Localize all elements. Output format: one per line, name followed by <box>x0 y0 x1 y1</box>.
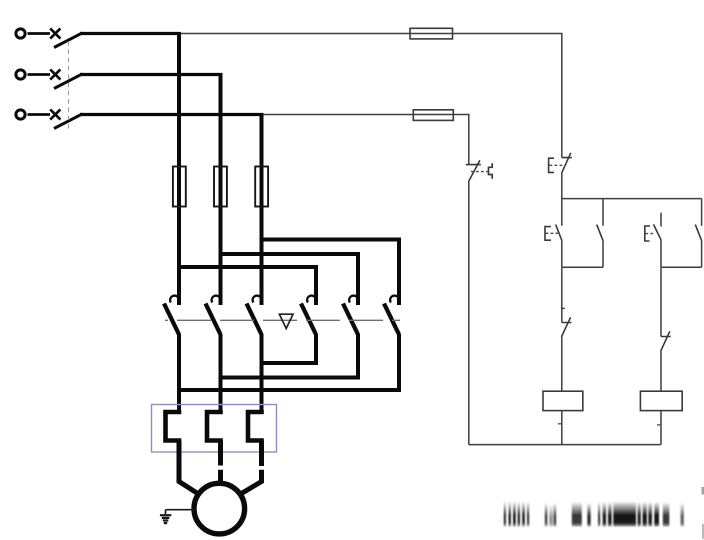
SB1 dashed link <box>550 164 565 166</box>
wire to coil KM1 <box>561 337 563 392</box>
wire KM2 pole3 to node U <box>177 334 399 390</box>
coil KM2 <box>640 391 682 410</box>
fuse FU1-3 <box>255 167 268 207</box>
thermal relay FR heater 2 <box>207 410 221 442</box>
wire KM1 pole1 down <box>177 334 181 412</box>
terminal L2 <box>16 70 25 79</box>
wire ground lead <box>166 510 195 514</box>
motor M <box>194 483 245 534</box>
SB2 dashed link <box>546 232 559 234</box>
wire SB2 KM1aux join <box>562 266 603 268</box>
wire fuse FU2-1 to control bus <box>453 34 562 158</box>
wire FR contact down left rail <box>468 181 470 445</box>
node tick <box>562 307 565 309</box>
thermal relay FR frame <box>152 405 277 453</box>
wire L1 lead <box>28 32 51 35</box>
wire phase3 drop <box>260 113 264 305</box>
FR contact actuator <box>489 163 493 178</box>
wire phase3 bus <box>80 113 264 116</box>
contactor KM1 pole1 arc <box>170 296 179 303</box>
switch QS pole 2 blade <box>54 74 83 89</box>
wire phase1 drop <box>177 32 181 305</box>
contactor KM2 pole2 blade <box>343 304 358 335</box>
wire SB2 top <box>561 199 563 226</box>
wire SB3 bottom <box>660 240 662 268</box>
wire phase1 to KM2 pole1 crossover <box>177 267 316 305</box>
wire KM2 aux bottom <box>701 240 703 267</box>
wire phase1 bus <box>80 32 181 35</box>
fuse FU1-2 <box>214 167 227 207</box>
contact KM1 aux blade <box>597 225 603 241</box>
contact KM2 aux blade <box>695 225 701 241</box>
switch QS pole 3 hinge cross <box>50 109 60 119</box>
contactor KM1 pole1 blade <box>164 304 179 335</box>
wire fuse FU2-2 to FR contact <box>453 115 469 165</box>
tick below coil KM2 <box>657 424 661 426</box>
wire L1 control branch <box>181 33 453 35</box>
wire coil KM2 down <box>660 411 662 445</box>
tick below coil KM1 <box>558 423 562 425</box>
wire KM1 branch mid <box>561 267 563 322</box>
contactor KM2 pole2 arc <box>349 296 358 303</box>
start button SB2 blade <box>556 225 562 241</box>
contactor KM1 pole2 arc <box>212 296 221 303</box>
wire SB1 to junction <box>561 172 563 199</box>
start button SB3 blade <box>654 224 662 239</box>
switch QS linkage dashed <box>68 41 70 129</box>
start button SB2 actuator <box>545 227 551 241</box>
wire KM2 pole2 to node V <box>219 334 359 378</box>
edge mark 1 <box>702 487 704 495</box>
terminal L1 <box>16 29 25 38</box>
fuse FU1-1 <box>173 167 186 207</box>
wire KM1 aux bottom <box>602 240 604 267</box>
ground symbol <box>160 515 171 523</box>
start button SB3 actuator <box>645 226 650 241</box>
switch QS pole 2 hinge cross <box>50 69 60 79</box>
contactor KM2 pole1 arc <box>307 296 316 303</box>
wire control bottom rail <box>469 444 661 446</box>
terminal L3 <box>16 110 25 119</box>
mechanical linkage dashed <box>165 319 400 321</box>
contactor KM1 pole3 arc <box>253 296 262 303</box>
wire SB3 stub <box>660 213 662 227</box>
contactor KM2 pole3 blade <box>384 304 399 335</box>
contactor KM1 pole2 blade <box>206 304 221 335</box>
wire phase2 drop <box>219 73 223 305</box>
wire motor lead U <box>179 441 198 494</box>
contactor KM2 pole1 blade <box>301 304 316 335</box>
wire L2 lead <box>28 73 51 76</box>
fuse FU2-1 <box>410 28 453 39</box>
thermal relay FR NC contact <box>466 160 481 181</box>
wire phase2 to KM2 pole2 crossover <box>219 254 359 305</box>
contactor KM2 pole3 arc <box>390 296 399 303</box>
wire motor lead V <box>218 441 223 483</box>
stop button SB1 actuator <box>549 158 554 172</box>
wire KM1 pole2 down <box>219 334 223 412</box>
edge mark 2 <box>702 524 704 539</box>
wire SB3 KM2aux join <box>661 266 702 268</box>
wire KM2 aux top <box>701 199 703 226</box>
wire KM2 branch mid <box>660 267 662 336</box>
wire phase2 bus <box>80 73 223 76</box>
wire KM1 pole3 down <box>260 334 264 412</box>
switch QS pole 1 hinge cross <box>50 28 60 38</box>
watermark barcode <box>504 502 684 527</box>
thermal relay FR heater 1 <box>166 410 180 442</box>
interlock KM1 NC contact <box>661 331 671 351</box>
wire motor lead W <box>241 441 262 494</box>
stop button SB1 contact <box>562 153 572 173</box>
wire to coil KM2 <box>660 351 662 392</box>
thermal relay FR heater 3 <box>248 410 262 442</box>
coil KM1 <box>543 391 583 410</box>
wire coil KM1 down <box>561 411 563 445</box>
interlock KM2 NC contact <box>561 317 571 337</box>
contactor KM1 pole3 blade <box>247 304 262 335</box>
wire junction bar <box>562 198 702 200</box>
wire KM2 pole1 to node W <box>260 334 317 363</box>
wire L3 lead <box>28 113 51 116</box>
switch QS pole 3 blade <box>54 114 83 129</box>
linkage triangle marker <box>279 314 293 328</box>
fuse FU2-2 <box>413 110 453 121</box>
SB3 dashed link <box>645 233 654 235</box>
wire L3 control branch <box>264 114 454 116</box>
wire KM1 aux top <box>602 199 604 226</box>
wire SB2 bottom <box>561 240 563 267</box>
switch QS pole 1 blade <box>54 33 83 48</box>
FR contact dashed link <box>471 171 488 173</box>
wire phase3 to KM2 pole3 crossover <box>260 240 400 306</box>
